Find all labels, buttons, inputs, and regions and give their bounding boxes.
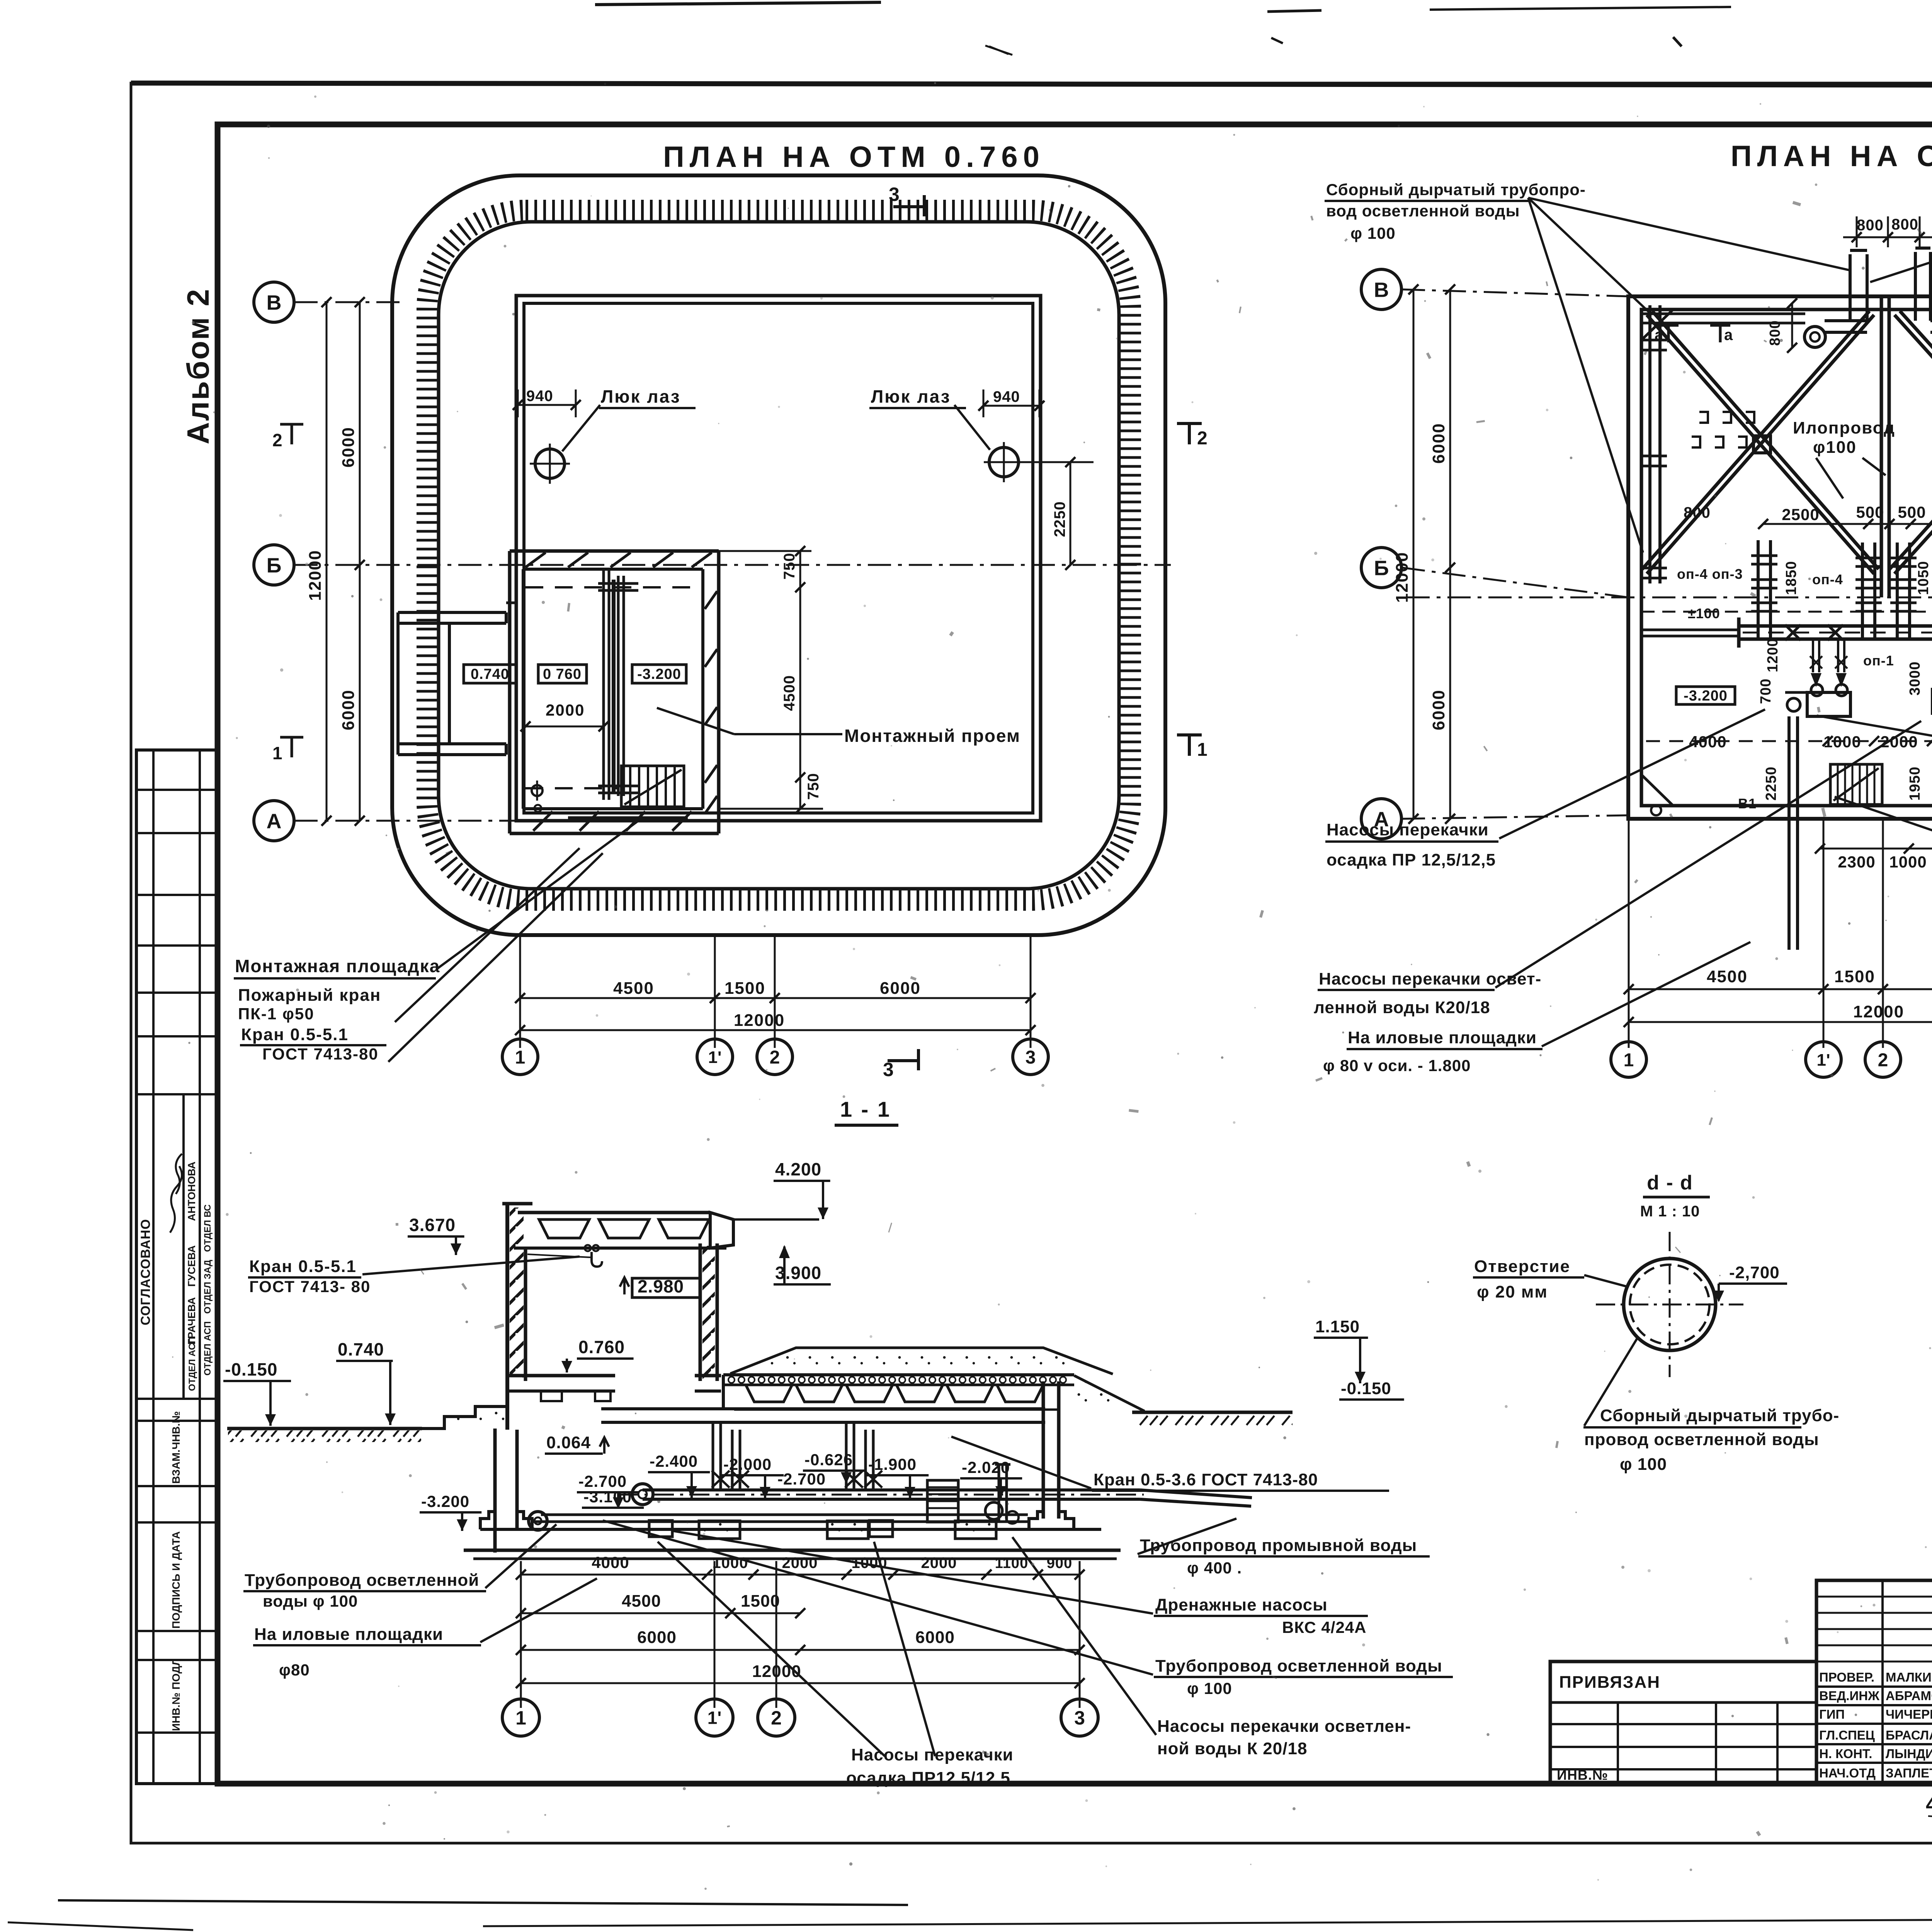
svg-text:940: 940 xyxy=(526,388,553,405)
detail centerlines xyxy=(1669,1232,1671,1377)
svg-text:ЛЫНДИНА: ЛЫНДИНА xyxy=(1886,1747,1932,1761)
section tank bottom slab xyxy=(480,1528,1101,1531)
svg-text:ЗАПЛЕТОХИН: ЗАПЛЕТОХИН xyxy=(1886,1766,1932,1780)
svg-text:4000: 4000 xyxy=(1689,733,1726,751)
svg-text:1000: 1000 xyxy=(1889,853,1927,871)
section ladder xyxy=(927,1480,958,1522)
svg-text:-2.400: -2.400 xyxy=(650,1452,698,1470)
svg-text:-3.200: -3.200 xyxy=(421,1492,469,1510)
svg-text:МАЛКИНА: МАЛКИНА xyxy=(1886,1670,1932,1684)
svg-text:ГЛ.СПЕЦ: ГЛ.СПЕЦ xyxy=(1819,1728,1875,1742)
right plan dim row 12000 xyxy=(1629,1021,1932,1023)
svg-text:осадка ПР12,5/12,5: осадка ПР12,5/12,5 xyxy=(846,1769,1010,1787)
svg-text:ПЛАН НА ОТМ. -3.200: ПЛАН НА ОТМ. -3.200 xyxy=(1731,140,1932,173)
svg-text:ОТДЕЛ АСП: ОТДЕЛ АСП xyxy=(202,1321,213,1376)
left plan outer rounded wall xyxy=(392,175,1165,935)
svg-text:Сборный дырчатый трубо-: Сборный дырчатый трубо- xyxy=(1600,1406,1839,1425)
pump room risers xyxy=(602,569,605,800)
ground line left xyxy=(227,1427,422,1430)
svg-text:ИНВ.№: ИНВ.№ xyxy=(1557,1767,1608,1783)
embankment dotted fill xyxy=(730,1348,1113,1374)
section pumps xyxy=(649,1520,672,1537)
svg-text:2: 2 xyxy=(1878,1050,1888,1070)
section main pipe f400 xyxy=(643,1488,1140,1492)
svg-text:800: 800 xyxy=(1767,320,1783,346)
X brace node squares xyxy=(1753,436,1770,453)
corner drain circle xyxy=(1651,805,1661,815)
svg-text:2250: 2250 xyxy=(1763,766,1779,801)
svg-text:3.900: 3.900 xyxy=(775,1263,821,1283)
svg-text:±100: ±100 xyxy=(1688,605,1720,621)
svg-text:ГУСЕВА: ГУСЕВА xyxy=(186,1245,197,1287)
svg-text:-0.150: -0.150 xyxy=(225,1359,277,1379)
svg-text:-2.020: -2.020 xyxy=(962,1458,1010,1476)
svg-text:Монтажный проем: Монтажный проем xyxy=(844,726,1020,746)
svg-text:а: а xyxy=(1655,327,1663,344)
X brace left bay xyxy=(1647,315,1874,574)
svg-text:6000: 6000 xyxy=(339,427,358,468)
pump room top wall xyxy=(510,549,719,553)
svg-text:6000: 6000 xyxy=(1429,689,1448,730)
manhole left dim 940 xyxy=(517,389,519,417)
section crane trolley and hook xyxy=(585,1245,591,1251)
external platform xyxy=(398,611,506,614)
svg-text:Кран 0.5-5.1: Кран 0.5-5.1 xyxy=(241,1025,349,1044)
svg-text:провод осветленной воды: провод осветленной воды xyxy=(1584,1430,1819,1449)
bottom scan lines xyxy=(58,1900,908,1905)
svg-text:d - d: d - d xyxy=(1647,1172,1693,1194)
left plan inner tank wall outer line xyxy=(516,296,1041,821)
right tank outer wall xyxy=(1628,296,1932,819)
svg-text:оп-1: оп-1 xyxy=(1863,653,1894,668)
svg-text:0.064: 0.064 xyxy=(546,1433,591,1452)
stairs grate right plan xyxy=(1830,764,1882,804)
svg-text:800: 800 xyxy=(1857,217,1884,234)
svg-text:1500: 1500 xyxy=(724,979,765,998)
section tank left wall xyxy=(493,1429,497,1553)
svg-text:Кран 0.5-3.6 ГОСТ 7413-80: Кран 0.5-3.6 ГОСТ 7413-80 xyxy=(1094,1470,1318,1489)
axis bubble Б xyxy=(254,545,294,585)
axis line Б xyxy=(294,564,1171,566)
svg-text:3: 3 xyxy=(1074,1707,1085,1729)
section floor slab xyxy=(507,1374,615,1378)
wash pipe valves xyxy=(1785,625,1801,640)
section dim row 1 xyxy=(520,1561,522,1708)
svg-text:φ100: φ100 xyxy=(1813,438,1857,457)
svg-text:1000: 1000 xyxy=(713,1554,748,1571)
elevation box 0.760 xyxy=(538,665,587,683)
svg-text:-0.626: -0.626 xyxy=(804,1451,853,1469)
svg-text:3: 3 xyxy=(889,184,900,205)
svg-text:ПЛАН НА ОТМ 0.760: ПЛАН НА ОТМ 0.760 xyxy=(663,141,1045,173)
svg-text:АБРАМОВА: АБРАМОВА xyxy=(1886,1689,1932,1703)
svg-text:φ 400 .: φ 400 . xyxy=(1187,1559,1242,1577)
svg-text:750: 750 xyxy=(781,553,798,580)
axis line А xyxy=(294,820,520,822)
left plan second rounded wall xyxy=(439,222,1119,889)
section dim row 2 xyxy=(521,1612,800,1614)
svg-text:-2.700: -2.700 xyxy=(777,1470,826,1488)
svg-text:1: 1 xyxy=(1197,740,1208,760)
svg-text:1000: 1000 xyxy=(1823,733,1861,751)
section mark 1 left xyxy=(291,736,293,757)
svg-text:4500: 4500 xyxy=(622,1592,661,1611)
svg-text:400347-02 30: 400347-02 30 xyxy=(1926,1792,1932,1816)
riser groups across wash pipe xyxy=(1757,540,1760,639)
svg-text:2000: 2000 xyxy=(546,701,585,719)
section riser cluster B xyxy=(845,1422,848,1490)
svg-text:4500: 4500 xyxy=(1707,967,1748,986)
section dim row 4 xyxy=(521,1682,1080,1684)
svg-text:2300: 2300 xyxy=(1838,853,1875,871)
pump room bottom wall xyxy=(523,807,703,810)
title block ПРИВЯЗАН table xyxy=(1550,1662,1816,1784)
overflow pipes top xyxy=(1849,254,1852,321)
left stamp column boxes xyxy=(136,750,218,1784)
elevation box -3.200 xyxy=(632,665,686,683)
svg-text:12000: 12000 xyxy=(1393,552,1412,603)
svg-text:1050: 1050 xyxy=(1915,561,1932,595)
svg-text:12000: 12000 xyxy=(752,1662,801,1681)
svg-text:Люк лаз: Люк лаз xyxy=(601,386,681,406)
svg-text:ОТДЕЛ ЗАД: ОТДЕЛ ЗАД xyxy=(202,1260,213,1314)
section mark 2 left xyxy=(291,423,293,444)
svg-text:ной воды К 20/18: ной воды К 20/18 xyxy=(1157,1739,1307,1758)
svg-text:-3.100: -3.100 xyxy=(583,1488,632,1506)
small bracket marks left bay xyxy=(1699,412,1708,423)
axis line B xyxy=(294,301,406,303)
svg-text:2000: 2000 xyxy=(921,1554,957,1571)
svg-text:Насосы перекачки осветлен-: Насосы перекачки осветлен- xyxy=(1157,1717,1411,1736)
svg-text:ОТДЕЛ ВС: ОТДЕЛ ВС xyxy=(202,1204,213,1252)
svg-text:800: 800 xyxy=(1684,504,1711,521)
section clarif pipe lower xyxy=(541,1514,1028,1516)
section standpipe right xyxy=(998,1464,1000,1522)
left plan label leaders xyxy=(437,820,639,969)
svg-text:-2.000: -2.000 xyxy=(723,1455,772,1473)
svg-text:Дренажные насосы: Дренажные насосы xyxy=(1155,1595,1328,1614)
svg-text:1500: 1500 xyxy=(741,1592,780,1611)
svg-text:700: 700 xyxy=(1758,679,1774,704)
svg-text:ГИП: ГИП xyxy=(1819,1707,1845,1721)
left plan inner tank wall inner line xyxy=(524,303,1033,813)
svg-text:ПРИВЯЗАН: ПРИВЯЗАН xyxy=(1559,1673,1660,1692)
svg-text:ЧИЧЕРИНА: ЧИЧЕРИНА xyxy=(1886,1707,1932,1721)
svg-text:Монтажная площадка: Монтажная площадка xyxy=(235,956,440,976)
section precast deck right xyxy=(723,1373,1074,1376)
svg-text:2500: 2500 xyxy=(1782,505,1819,524)
svg-text:-3.200: -3.200 xyxy=(637,666,681,682)
svg-text:Б: Б xyxy=(267,554,282,577)
svg-text:0.760: 0.760 xyxy=(578,1337,625,1357)
sheet inner frame xyxy=(218,124,1932,1784)
wash water pipe band xyxy=(1739,624,1932,628)
svg-text:2: 2 xyxy=(771,1707,782,1729)
svg-text:4.200: 4.200 xyxy=(775,1159,821,1179)
svg-text:На иловые площадки: На иловые площадки xyxy=(254,1625,443,1644)
section left wall above ground xyxy=(505,1204,509,1430)
svg-text:1950: 1950 xyxy=(1907,766,1923,801)
manhole right Люк лаз xyxy=(989,447,1019,477)
svg-text:750: 750 xyxy=(805,773,822,800)
svg-text:6000: 6000 xyxy=(880,979,921,998)
svg-text:осадка ПР 12,5/12,5: осадка ПР 12,5/12,5 xyxy=(1327,850,1496,869)
svg-text:φ80: φ80 xyxy=(279,1661,310,1679)
svg-text:Илопровод: Илопровод xyxy=(1793,418,1895,437)
pump room dashed platform lines xyxy=(526,586,700,588)
svg-text:0.740: 0.740 xyxy=(471,666,509,682)
left plan grid bubbles xyxy=(502,1039,538,1075)
svg-text:3: 3 xyxy=(1026,1047,1036,1068)
svg-text:-2,700: -2,700 xyxy=(1729,1263,1780,1282)
dim 2250 vertical xyxy=(1004,461,1094,463)
branch pipes with arrows xyxy=(1812,639,1814,672)
svg-text:2000: 2000 xyxy=(782,1554,818,1571)
right plan dim row 4500-1500-6000 xyxy=(1629,988,1932,990)
manhole left leader and label xyxy=(562,405,600,451)
section foundation pads xyxy=(699,1521,740,1539)
svg-text:1500: 1500 xyxy=(1834,967,1875,986)
axis bubble В xyxy=(254,282,294,322)
pump room dim 750-4500-750 xyxy=(719,550,811,552)
svg-text:1.150: 1.150 xyxy=(1315,1317,1360,1336)
svg-text:1: 1 xyxy=(1624,1050,1634,1070)
svg-text:Альбом 2: Альбом 2 xyxy=(181,288,215,444)
svg-text:М 1 : 10: М 1 : 10 xyxy=(1640,1203,1700,1220)
svg-text:1': 1' xyxy=(1817,1051,1830,1070)
svg-text:оп-4: оп-4 xyxy=(1812,571,1843,587)
elevation box 0.740 xyxy=(464,665,517,683)
section grid bubbles xyxy=(502,1699,539,1736)
section right elbow circles xyxy=(985,1502,1002,1519)
svg-text:-3.200: -3.200 xyxy=(1684,688,1728,704)
svg-text:1 - 1: 1 - 1 xyxy=(840,1097,891,1121)
svg-text:ВКС 4/24А: ВКС 4/24А xyxy=(1282,1618,1367,1636)
svg-text:φ 100: φ 100 xyxy=(1350,224,1396,242)
svg-text:0 760: 0 760 xyxy=(543,666,582,682)
manhole left Люк лаз xyxy=(535,449,565,478)
svg-text:-0.150: -0.150 xyxy=(1341,1379,1391,1398)
X brace right bay xyxy=(1895,315,1932,574)
svg-text:Трубопровод осветленной: Трубопровод осветленной xyxy=(245,1571,479,1590)
svg-text:НАЧ.ОТД: НАЧ.ОТД xyxy=(1819,1766,1876,1780)
svg-text:вод осветленной воды: вод осветленной воды xyxy=(1326,202,1520,220)
left plan bottom extension lines xyxy=(519,937,521,1048)
pump room left wall inner xyxy=(522,569,525,809)
mid dim row 2500-500-500-2500 xyxy=(1763,523,1932,525)
left plan hatch tick band xyxy=(427,210,1131,900)
left vertical dimension chain xyxy=(359,302,361,821)
svg-text:4500: 4500 xyxy=(781,675,798,711)
svg-text:1': 1' xyxy=(708,1048,722,1067)
svg-text:12000: 12000 xyxy=(1853,1002,1904,1021)
svg-text:ВЕД.ИНЖ: ВЕД.ИНЖ xyxy=(1819,1689,1879,1703)
right plan vertical dim chain xyxy=(1449,289,1451,819)
right tank inner wall xyxy=(1641,310,1932,806)
svg-text:800: 800 xyxy=(1891,216,1918,233)
svg-text:ГОСТ 7413-80: ГОСТ 7413-80 xyxy=(262,1045,379,1063)
section mark T1 right xyxy=(1188,733,1191,756)
svg-text:3.670: 3.670 xyxy=(409,1215,456,1235)
svg-text:2: 2 xyxy=(770,1047,780,1068)
svg-text:1100: 1100 xyxy=(995,1555,1028,1571)
pump room stairs xyxy=(621,766,684,807)
svg-text:ленной воды К20/18: ленной воды К20/18 xyxy=(1314,998,1490,1017)
svg-text:φ 100: φ 100 xyxy=(1620,1455,1667,1474)
top distribution trough xyxy=(1641,313,1805,315)
svg-text:Трубопровод осветленной воды: Трубопровод осветленной воды xyxy=(1155,1656,1442,1675)
svg-text:На иловые площадки: На иловые площадки xyxy=(1348,1028,1537,1047)
title block signature table xyxy=(1816,1580,1932,1784)
svg-text:ВЗАМ.ЧНВ.№: ВЗАМ.ЧНВ.№ xyxy=(170,1411,182,1484)
section riser cluster A xyxy=(712,1422,714,1490)
svg-text:φ 20 мм: φ 20 мм xyxy=(1477,1282,1548,1301)
svg-text:Отверстие: Отверстие xyxy=(1474,1257,1570,1276)
pump room drain symbol xyxy=(532,785,543,796)
svg-text:2250: 2250 xyxy=(1051,501,1068,537)
svg-text:В: В xyxy=(267,291,282,314)
section tank ceiling slab 0.064 xyxy=(601,1407,1045,1410)
manhole right leader and label xyxy=(954,405,990,450)
svg-text:Сборный дырчатый трубопро-: Сборный дырчатый трубопро- xyxy=(1326,180,1586,199)
svg-text:1: 1 xyxy=(515,1707,526,1729)
svg-text:φ 100: φ 100 xyxy=(1187,1679,1232,1697)
svg-text:500: 500 xyxy=(1856,503,1884,521)
svg-text:В: В xyxy=(1374,278,1389,301)
section tank right wall xyxy=(1042,1381,1045,1519)
svg-text:1200: 1200 xyxy=(1765,638,1781,672)
svg-text:Кран 0.5-5.1: Кран 0.5-5.1 xyxy=(249,1257,357,1276)
svg-text:Люк лаз: Люк лаз xyxy=(871,386,951,406)
svg-text:500: 500 xyxy=(1898,503,1926,521)
svg-text:-1.900: -1.900 xyxy=(868,1455,917,1473)
drain pipes going down xyxy=(1787,716,1791,950)
svg-text:6000: 6000 xyxy=(1429,423,1448,464)
svg-text:6000: 6000 xyxy=(637,1628,677,1647)
svg-text:2: 2 xyxy=(1197,428,1208,449)
svg-text:12000: 12000 xyxy=(306,550,325,601)
axis Б dashdot right plan xyxy=(1406,597,1932,599)
svg-text:3000: 3000 xyxy=(1907,661,1923,696)
svg-text:1000: 1000 xyxy=(852,1554,888,1571)
top scan marks xyxy=(595,2,881,5)
svg-text:1: 1 xyxy=(515,1047,526,1068)
elevation box right -3.200 xyxy=(1676,687,1735,704)
svg-text:940: 940 xyxy=(993,388,1020,405)
right tank center wall xyxy=(1880,296,1883,597)
svg-text:12000: 12000 xyxy=(734,1011,785,1030)
rotated dim 800 left xyxy=(1791,303,1793,348)
section pipe elbow flange xyxy=(632,1484,653,1505)
svg-text:ПОДПИСЬ И ДАТА: ПОДПИСЬ И ДАТА xyxy=(170,1531,182,1629)
svg-text:1': 1' xyxy=(707,1708,722,1728)
dim 800 800 top xyxy=(1856,216,1858,247)
svg-text:6000: 6000 xyxy=(339,689,358,730)
svg-text:4000: 4000 xyxy=(592,1553,629,1571)
svg-text:ИНВ.№ ПОДЛ: ИНВ.№ ПОДЛ xyxy=(170,1658,182,1731)
right plan grid bubbles xyxy=(1611,1042,1646,1077)
stamp signatures xyxy=(170,1166,182,1233)
svg-text:ГОСТ 7413- 80: ГОСТ 7413- 80 xyxy=(249,1277,371,1296)
right plan bottom ext lines xyxy=(1628,820,1630,1048)
svg-text:АНТОНОВА: АНТОНОВА xyxy=(186,1162,197,1221)
svg-text:900: 900 xyxy=(1047,1555,1072,1571)
section roof slab xyxy=(518,1211,710,1214)
svg-text:2: 2 xyxy=(272,430,283,450)
interior dim row 4000-1000-2000-1000 xyxy=(1646,740,1932,742)
svg-text:0.740: 0.740 xyxy=(338,1339,384,1359)
svg-text:воды φ 100: воды φ 100 xyxy=(263,1592,358,1610)
svg-text:а: а xyxy=(1724,327,1733,344)
svg-text:ПРОВЕР.: ПРОВЕР. xyxy=(1819,1670,1874,1684)
section right wall xyxy=(699,1243,702,1381)
section left steps xyxy=(421,1406,507,1429)
svg-text:1: 1 xyxy=(272,743,283,763)
right plan axis bubbles xyxy=(1361,269,1401,310)
svg-text:оп-4 оп-3: оп-4 оп-3 xyxy=(1677,566,1743,582)
svg-text:А: А xyxy=(267,810,282,833)
manhole right dim 940 xyxy=(983,389,985,417)
svg-text:4500: 4500 xyxy=(613,979,654,998)
detail pipe circle xyxy=(1624,1259,1716,1350)
bottom dim row 2300-1000-1700-3300 xyxy=(1820,848,1932,850)
svg-text:Н. КОНТ.: Н. КОНТ. xyxy=(1819,1747,1872,1761)
section dim row 3 xyxy=(521,1649,1080,1651)
right tank corner chamfers xyxy=(1641,310,1673,340)
svg-text:ОТДЕЛ АСП: ОТДЕЛ АСП xyxy=(187,1337,197,1391)
pump room right wall xyxy=(701,569,704,809)
perforated pipe left wall xyxy=(1648,305,1651,583)
axis bubble А xyxy=(254,801,294,841)
left plan dim row 12000 xyxy=(520,1029,1031,1031)
right slope and ground xyxy=(1074,1376,1145,1411)
svg-text:6000: 6000 xyxy=(915,1628,955,1647)
section pipe flanges left xyxy=(529,1512,547,1530)
svg-text:В1: В1 xyxy=(1738,796,1757,811)
svg-text:ПК-1 φ50: ПК-1 φ50 xyxy=(238,1005,315,1023)
top scan streak marks xyxy=(1271,38,1283,43)
svg-text:Пожарный кран: Пожарный кран xyxy=(238,986,381,1005)
svg-text:Насосы перекачки: Насосы перекачки xyxy=(1327,820,1489,839)
left plan dim row 4500-1500-6000 xyxy=(520,997,1031,999)
svg-text:Б: Б xyxy=(1374,556,1389,580)
svg-text:БРАСЛАВСКИЙ: БРАСЛАВСКИЙ xyxy=(1886,1728,1932,1742)
svg-text:СОГЛАСОВАНО: СОГЛАСОВАНО xyxy=(138,1219,153,1325)
pump blocks right plan xyxy=(1807,692,1850,716)
svg-text:φ 80 v оси. - 1.800: φ 80 v оси. - 1.800 xyxy=(1323,1056,1471,1075)
svg-text:1850: 1850 xyxy=(1783,561,1799,595)
section mark T2 right xyxy=(1188,422,1191,444)
